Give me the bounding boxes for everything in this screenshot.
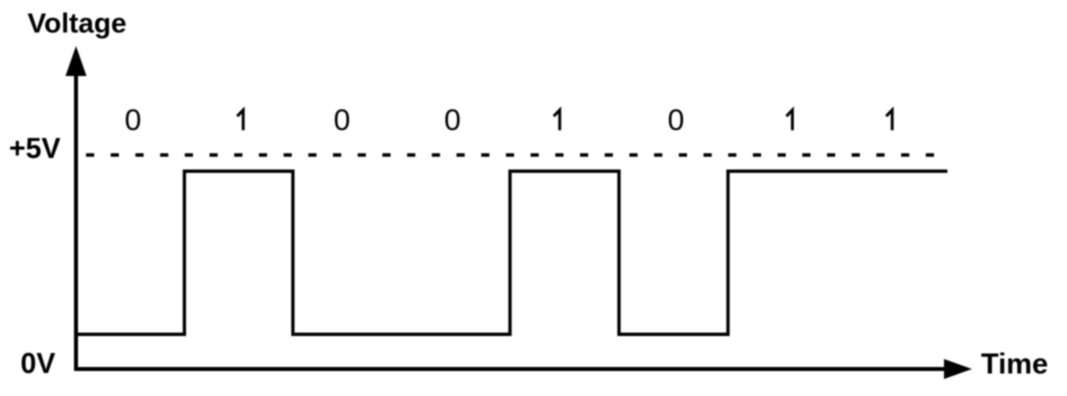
svg-text:+5V: +5V	[9, 133, 61, 165]
svg-text:0: 0	[125, 104, 142, 137]
svg-text:0: 0	[668, 104, 685, 137]
svg-text:0: 0	[444, 104, 461, 137]
svg-text:0V: 0V	[21, 348, 56, 380]
svg-text:0: 0	[334, 104, 351, 137]
svg-text:Time: Time	[981, 349, 1048, 381]
svg-text:Voltage: Voltage	[28, 7, 127, 38]
